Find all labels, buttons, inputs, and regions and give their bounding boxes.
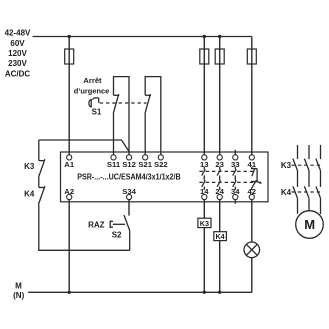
wire: neutral rail xyxy=(28,291,252,293)
svg-text:S34: S34 xyxy=(122,187,136,196)
svg-text:S1: S1 xyxy=(92,108,102,117)
node: A2 on neutral rail xyxy=(68,291,71,294)
wire: feed branch to S12 and left feedback branch xyxy=(39,140,129,151)
svg-text:120V: 120V xyxy=(8,49,27,58)
wire: phase L2 xyxy=(308,145,310,159)
emergency stop button S1 (mushroom actuator) xyxy=(89,98,99,108)
wire: e-stop channel 1 loop S11-S12 xyxy=(113,114,115,155)
wire: left branch down and along bottom of reset loop xyxy=(39,205,130,251)
contact K4 pole 1 (NO) xyxy=(293,186,298,198)
svg-text:M: M xyxy=(304,217,315,232)
contact K3 feedback (NC) xyxy=(38,159,45,177)
svg-text:RAZ: RAZ xyxy=(88,220,105,229)
wire: rail down to A1 xyxy=(68,37,70,155)
coil K3 xyxy=(198,218,211,228)
mechanical linkage (dashed) K3 power contacts xyxy=(292,164,321,166)
wire: phase L3 xyxy=(320,145,322,159)
terminal S21 xyxy=(138,155,152,169)
wire: stub below terminal 34 xyxy=(234,200,236,204)
wire: S34 down to reset contact xyxy=(128,200,130,216)
node: K4 coil on neutral rail xyxy=(218,291,221,294)
svg-text:A1: A1 xyxy=(64,160,75,169)
net labels: supply voltages xyxy=(5,28,31,78)
relay contact 23-24 (NO, 2 in series) xyxy=(217,167,221,190)
svg-text:S2: S2 xyxy=(112,231,122,240)
wire: 42 to lamp xyxy=(251,200,253,242)
terminal S22 xyxy=(154,155,168,169)
fuse F4 xyxy=(247,49,256,64)
internal linkage (dashed) of relay contacts xyxy=(199,170,255,172)
wire: rail down to terminal 23 xyxy=(219,37,221,155)
node: K3 coil on neutral rail xyxy=(203,291,206,294)
wire: rail down to terminal 13 xyxy=(203,37,205,155)
wire: K3 coil to neutral rail xyxy=(203,228,205,293)
wire: 24 to K4 coil xyxy=(219,200,221,232)
svg-text:K4: K4 xyxy=(281,188,292,197)
svg-text:S12: S12 xyxy=(122,160,136,169)
mechanical linkage (dashed) K4 power contacts xyxy=(292,191,321,193)
svg-text:K3: K3 xyxy=(200,219,209,228)
terminal A1 xyxy=(64,155,75,169)
terminal 42 xyxy=(248,187,257,200)
wire: top supply rail xyxy=(33,36,252,38)
indicator lamp H1 xyxy=(244,242,260,258)
terminal 23 xyxy=(215,155,224,169)
svg-text:Arrêt: Arrêt xyxy=(83,76,102,85)
svg-text:PSR-...-...UC/ESAM4/3x1/1x2/B: PSR-...-...UC/ESAM4/3x1/1x2/B xyxy=(77,172,181,181)
wire: left feedback branch upper xyxy=(38,140,40,161)
wire: S2 down to reset loop bottom xyxy=(129,231,131,251)
wire: e-stop channel 2 loop S21-S22 xyxy=(144,114,146,155)
contact S1 channel 2 (NC) xyxy=(145,94,151,114)
relay contact 41-42 (NC, forcibly guided) xyxy=(251,167,262,190)
svg-text:K3: K3 xyxy=(24,162,35,171)
svg-text:230V: 230V xyxy=(8,59,27,68)
terminal 33 xyxy=(231,155,240,169)
svg-text:K4: K4 xyxy=(24,190,35,199)
node: rail junction to F2 xyxy=(203,35,206,38)
terminal 34 xyxy=(231,187,240,200)
node: rail junction to F1 xyxy=(68,35,71,38)
svg-text:S22: S22 xyxy=(154,160,168,169)
svg-text:S21: S21 xyxy=(138,160,152,169)
mechanical linkage (dashed) for S1 xyxy=(100,102,147,104)
terminal S12 xyxy=(122,155,136,169)
label: emergency stop xyxy=(74,76,110,96)
wire: lamp down to neutral rail corner xyxy=(251,258,253,293)
wire: 14 to K3 coil xyxy=(203,200,205,219)
fuse F2 xyxy=(200,49,209,64)
fuse F3 xyxy=(215,49,224,64)
svg-text:60V: 60V xyxy=(10,39,25,48)
contact K3 pole 1 (NO) xyxy=(293,159,298,171)
terminal 24 xyxy=(215,187,224,200)
safety relay U1 body xyxy=(61,152,269,202)
svg-text:42-48V: 42-48V xyxy=(5,28,31,37)
fuse F1 xyxy=(65,49,74,64)
wire: between K3 and K4 xyxy=(38,178,40,188)
wire: rail corner down to terminal 41 xyxy=(251,37,253,155)
svg-text:d’urgence: d’urgence xyxy=(74,87,110,96)
contact K4 feedback (NC) xyxy=(38,186,45,204)
terminal 41 xyxy=(248,155,257,169)
contact S1 channel 1 (NC) xyxy=(113,94,119,114)
svg-text:A2: A2 xyxy=(64,187,74,196)
terminal A2 xyxy=(64,187,74,200)
contact S2 (NO) xyxy=(124,215,130,231)
svg-text:K4: K4 xyxy=(215,232,224,241)
svg-text:(N): (N) xyxy=(13,291,24,300)
relay contact 13-14 (NO, 2 in series) xyxy=(202,167,206,190)
reset button S2 (NO) actuator xyxy=(110,221,125,227)
contact K4 pole 2 (NO) xyxy=(304,186,309,198)
svg-text:S11: S11 xyxy=(107,160,121,169)
terminal S34 xyxy=(122,187,136,200)
coil K4 xyxy=(214,232,227,241)
node: rail junction to F3 xyxy=(218,35,221,38)
terminal 13 xyxy=(200,155,209,169)
wire: K4 coil to neutral rail xyxy=(219,241,221,293)
svg-text:M: M xyxy=(15,282,22,291)
label: M (N) neutral xyxy=(13,282,24,301)
svg-text:K3: K3 xyxy=(281,161,292,170)
terminal S11 xyxy=(107,155,121,169)
contact K3 pole 3 (NO) xyxy=(316,159,321,171)
contact K4 pole 3 (NO) xyxy=(316,186,321,198)
relay contact 33-34 (NO, 2 in series) xyxy=(233,167,237,190)
svg-text:AC/DC: AC/DC xyxy=(5,69,31,78)
motor M1 xyxy=(296,211,324,239)
wire: phase L1 xyxy=(297,145,299,159)
contact K3 pole 2 (NO) xyxy=(304,159,309,171)
wire: A2 to neutral rail xyxy=(68,200,70,293)
wire: stub above terminal 33 xyxy=(234,150,236,155)
terminal 14 xyxy=(200,187,209,200)
